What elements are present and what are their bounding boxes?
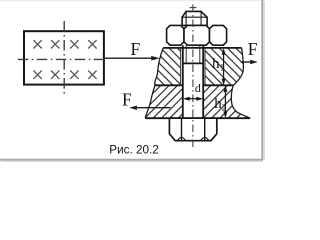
hatching: top plate right block (205, 48, 243, 85)
dimension d (line with outward arrows) (183, 97, 203, 101)
plate plan-view rectangle (24, 31, 104, 84)
bolt head (bottom) (169, 118, 216, 141)
dimension h1 (line with arrows) (222, 48, 226, 85)
bolt protruding end above nut (182, 11, 207, 25)
frame right border (261, 0, 263, 160)
bolt shank right edge (202, 45, 204, 118)
nut (three chamfered facets) (167, 25, 227, 45)
top hairline of frame (0, 0, 264, 2)
joint interface line, right segment (203, 84, 233, 86)
thread minor diameter line right (199, 45, 201, 63)
svg-text:F: F (248, 39, 258, 59)
clearance hole wall, right (thin) (204, 48, 206, 85)
right break edge of plates (wavy) (231, 48, 250, 118)
bottom plate bottom surface line (145, 117, 250, 119)
hatching: top plate left block (155, 48, 181, 85)
svg-text:Рис. 20.2: Рис. 20.2 (109, 143, 158, 156)
hatching: bottom plate left block (145, 85, 183, 118)
left break edge of plates (wavy) (145, 48, 163, 118)
rivet X marks (2 rows x 4 columns) (33, 40, 96, 79)
frame bottom border (0, 159, 263, 161)
dimension h2 (line with arrows) (223, 85, 227, 118)
joint interface line, left segment (155, 84, 183, 86)
thread minor diameter line left (185, 45, 187, 63)
hatching: bottom plate right block (203, 85, 250, 118)
clearance hole wall, left (thin) (180, 48, 182, 85)
top plate top surface line (163, 47, 241, 49)
vertical centerline of plan view (63, 21, 65, 96)
horizontal centerline of plan view (18, 58, 104, 60)
bolt shank left edge (182, 45, 184, 118)
svg-text:F: F (122, 89, 132, 109)
thread end line (183, 62, 203, 64)
bolt axis centerline (192, 5, 194, 149)
force arrow F2 (top right, pointing right) (241, 60, 258, 65)
svg-text:F: F (131, 39, 141, 59)
axis top tick (190, 7, 197, 9)
svg-text:d: d (195, 81, 201, 95)
force arrow F1 (plan view, pointing right) (104, 56, 160, 61)
force arrow F3 (bottom left, pointing left) (129, 106, 170, 111)
